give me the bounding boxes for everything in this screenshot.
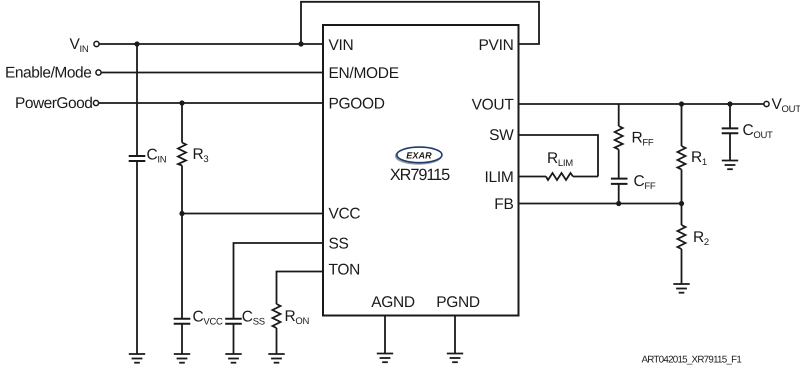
wire VIN net [99,43,323,45]
svg-text:PGOOD: PGOOD [329,96,385,113]
resistor R_LIM horizontal [546,173,573,180]
wire R_FF top [618,104,620,126]
wire VCC net [182,213,323,215]
wire C_VCC to ground [181,324,183,354]
resistor R2 [678,225,686,249]
ground for C_VCC [174,354,190,363]
wire R3 branch top [181,103,183,143]
ground for C_IN [129,354,145,363]
wire ILIM segment left [519,176,547,178]
node junction VIN/top loop [298,41,303,46]
node junction PGOOD/R3 [179,100,184,105]
resistor R_ON [273,304,281,328]
resistor R3 [178,143,186,166]
wire PGND pin to ground [454,316,456,354]
capacitor C_FF plates [611,178,628,180]
wire C_SS to ground [233,324,235,354]
ground for C_OUT [722,161,738,170]
terminal V_OUT [764,101,769,106]
wire R1 bottom [681,170,683,204]
node junction VCC/R3 [179,211,184,216]
wire EN/MODE net [101,72,323,74]
node junction FB/C_FF [616,201,621,206]
capacitor C_OUT plates [722,127,739,129]
svg-text:ILIM: ILIM [485,169,514,186]
wire R_ON to ground [276,328,278,354]
wire SS net [234,243,324,318]
wire C_FF to FB [618,184,620,204]
wire TON net [277,272,324,305]
svg-text:SW: SW [489,127,514,144]
svg-text:PVIN: PVIN [479,37,514,54]
ground for PGND [447,354,463,363]
wire C_OUT top [729,104,731,128]
ground for R2 [673,284,689,293]
wire top loop VIN to PVIN [301,2,539,44]
op-amp U1 XR79115 IC body [323,25,519,316]
svg-text:PowerGood: PowerGood [15,95,92,112]
EXAR logo U1 [396,147,442,164]
svg-text:EN/MODE: EN/MODE [329,65,399,82]
svg-text:PGND: PGND [436,294,480,311]
wire AGND pin to ground [384,316,386,354]
wire VOUT net [519,103,765,105]
wire C_IN branch lower [136,161,138,354]
wire R2 to ground [681,249,683,284]
terminal V_IN [94,41,99,46]
node junction VOUT/R1 [679,101,684,106]
wire R3 to VCC to C_VCC [181,166,183,319]
svg-text:ART042015_XR79115_F1: ART042015_XR79115_F1 [642,355,742,366]
ground for C_SS [225,354,241,363]
wire R2 top [681,204,683,226]
svg-text:VOUT: VOUT [472,97,515,114]
node junction FB/R1/R2 [679,201,684,206]
svg-text:SS: SS [329,236,349,253]
svg-text:VCC: VCC [329,206,361,223]
capacitor C_VCC plates [174,318,191,320]
capacitor C_SS plates [225,318,242,320]
ground for AGND [377,354,393,363]
resistor R_FF [615,126,623,150]
ground for R_ON [268,354,284,363]
wire ILIM segment right [573,176,598,178]
svg-text:VIN: VIN [329,37,354,54]
node junction VOUT/C_OUT [727,101,732,106]
node junction VIN/C_IN [134,41,139,46]
wire R_FF to C_FF [618,150,620,179]
svg-text:EXAR: EXAR [406,150,432,160]
wire SW loop [519,135,599,177]
svg-text:AGND: AGND [371,294,415,311]
svg-text:FB: FB [494,196,513,213]
terminal PowerGood [93,100,98,105]
terminal Enable/Mode [96,70,101,75]
svg-text:TON: TON [329,262,361,279]
svg-text:XR79115: XR79115 [390,166,450,184]
resistor R1 [678,146,686,170]
svg-text:Enable/Mode: Enable/Mode [5,65,91,82]
wire FB net [519,203,682,205]
wire PGOOD net [99,102,324,104]
capacitor C_IN plates [129,155,146,157]
wire R1 top [681,104,683,146]
wire C_OUT to ground [729,133,731,160]
wire C_IN branch upper [136,44,138,155]
